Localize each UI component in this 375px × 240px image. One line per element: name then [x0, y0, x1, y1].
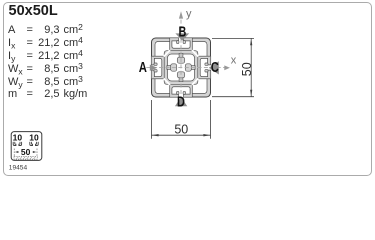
horizontal centerline [146, 67, 226, 69]
property row A [0, 24, 1, 37]
y-axis arrow [179, 11, 183, 18]
svg-text:50: 50 [174, 122, 188, 136]
corner slit bottom-right [191, 78, 199, 86]
T-slot right [200, 58, 211, 76]
corner slit top-left [163, 50, 171, 58]
bottom dimension arrowheads [152, 134, 159, 136]
icon dashed extension lines [14, 149, 37, 157]
bottom dimension line [152, 134, 211, 136]
center tab bottom [177, 72, 184, 82]
svg-text:B: B [179, 25, 187, 41]
page border frame [3, 2, 372, 176]
svg-text:10: 10 [29, 133, 39, 143]
property row Ix [0, 37, 1, 50]
chamber block left [151, 56, 164, 79]
icon dim arrows [15, 151, 19, 153]
interior cavity white [155, 42, 207, 94]
chamber block right [197, 56, 210, 79]
right dimension line [250, 38, 252, 96]
x-axis arrow [224, 65, 230, 70]
pointer arrow C [209, 61, 219, 74]
pointer arrow D [175, 97, 187, 106]
center tab top [177, 53, 184, 63]
property row Wy [0, 76, 1, 89]
groove icon box [11, 132, 42, 161]
slot hooks bottom [177, 91, 186, 94]
svg-text:19454: 19454 [9, 164, 28, 171]
slot hooks right [205, 63, 208, 72]
svg-text:D: D [177, 94, 185, 110]
icon hatched base bar [14, 157, 37, 160]
svg-text:50: 50 [240, 62, 254, 76]
right dimension extension lines [212, 38, 254, 96]
svg-text:y: y [186, 8, 192, 20]
T-slot top [172, 37, 190, 48]
center tab right [185, 64, 195, 71]
central cavity [168, 54, 195, 81]
svg-text:C: C [211, 60, 219, 76]
slot hooks left [154, 63, 157, 72]
vertical centerline [180, 13, 182, 106]
T-slot bottom [172, 87, 190, 98]
property row m [0, 88, 1, 101]
center tab left [167, 64, 177, 71]
pointer arrow A [150, 65, 158, 71]
icon groove symbol right [30, 142, 38, 145]
property row Iy [0, 50, 1, 63]
svg-text:x: x [231, 54, 237, 66]
slot hooks top [177, 41, 186, 44]
title 50x50L [9, 4, 58, 19]
icon groove symbol left [13, 142, 21, 145]
profile body [152, 38, 211, 97]
pointer arrow B [175, 33, 189, 40]
corner slit top-right [191, 50, 199, 58]
bottom dimension extension lines [152, 100, 211, 139]
T-slot left [151, 58, 162, 76]
right dimension arrowheads [250, 39, 252, 46]
chamber block bottom [170, 84, 193, 97]
svg-text:50: 50 [21, 147, 31, 157]
svg-text:10: 10 [13, 133, 23, 143]
chamber block top [170, 38, 193, 51]
corner slit bottom-left [163, 78, 171, 86]
svg-text:A: A [139, 60, 148, 76]
property row Wx [0, 63, 1, 76]
central gray ring [164, 51, 198, 85]
